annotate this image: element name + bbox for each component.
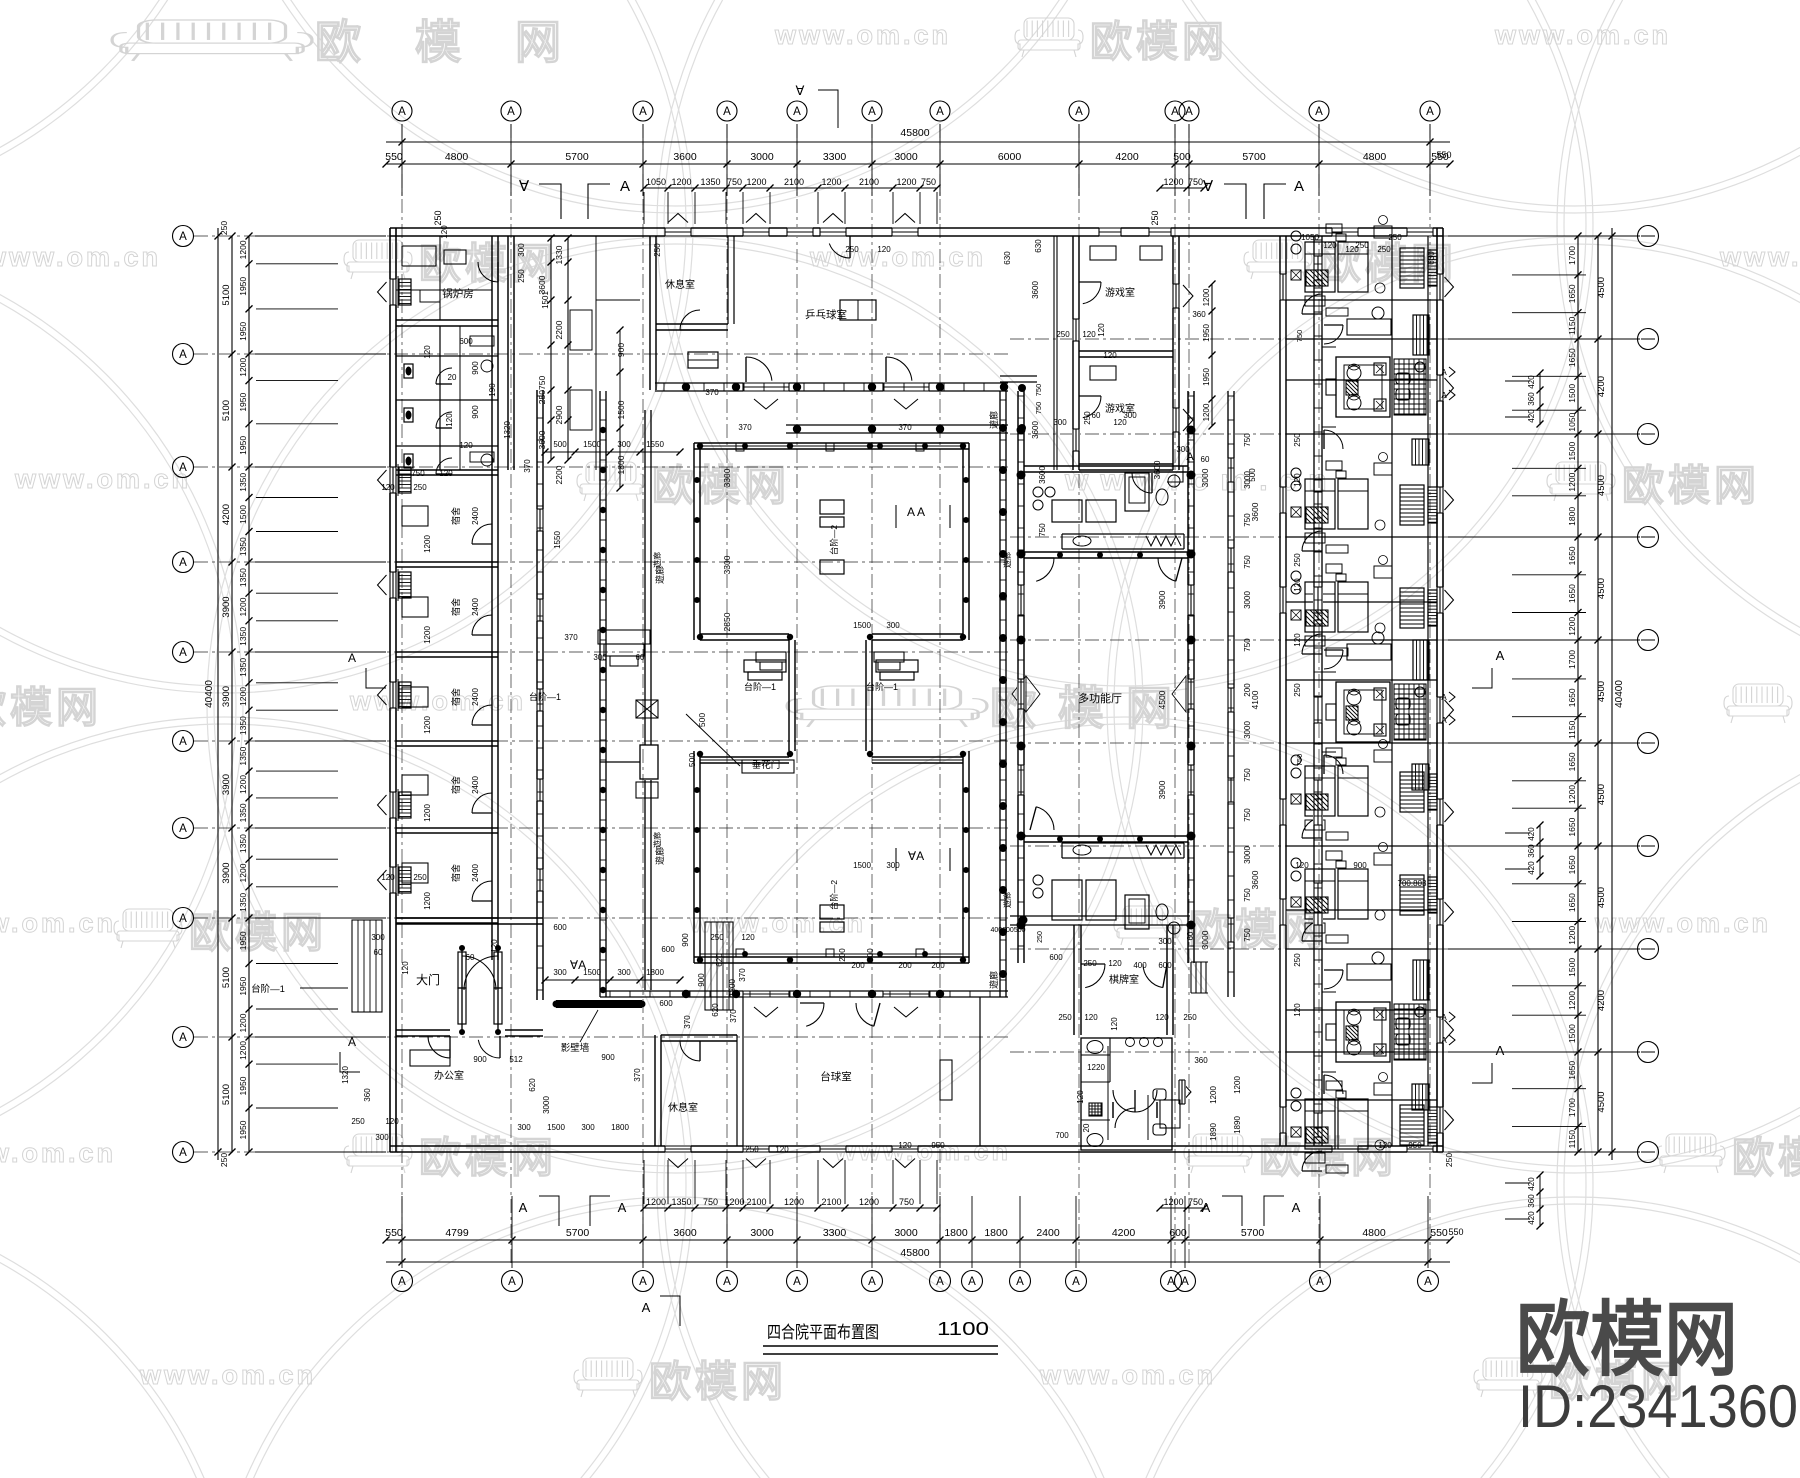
svg-text:4200: 4200	[1115, 151, 1139, 163]
svg-text:630: 630	[1003, 251, 1012, 265]
bath stall partitions left wing	[396, 355, 498, 357]
bath cluster extra lines	[459, 326, 461, 470]
svg-text:3300: 3300	[823, 1227, 847, 1239]
svg-text:4800: 4800	[1362, 1227, 1386, 1239]
suite doors	[1324, 650, 1343, 669]
bedroom corridor window	[1313, 493, 1323, 517]
svg-text:1200: 1200	[859, 1197, 879, 1207]
svg-text:300: 300	[517, 243, 526, 257]
svg-text:1200: 1200	[238, 1013, 248, 1032]
left extension lines	[255, 235, 386, 237]
svg-text:5700: 5700	[565, 151, 589, 163]
svg-text:1650: 1650	[1567, 688, 1577, 707]
multifunction hall wall dots	[1057, 552, 1063, 558]
svg-text:250: 250	[1377, 245, 1391, 254]
svg-text:1150: 1150	[1567, 316, 1577, 335]
svg-text:四合院平面布置图: 四合院平面布置图	[767, 1323, 879, 1342]
right overall dimension 40400	[1611, 228, 1613, 1160]
svg-text:200: 200	[838, 948, 847, 962]
svg-text:1650: 1650	[1567, 1061, 1577, 1080]
svg-text:1650: 1650	[1567, 546, 1577, 565]
top minor dims right side	[1160, 187, 1204, 189]
svg-text:500: 500	[553, 440, 567, 449]
right wing bedroom tv and extras	[1326, 308, 1348, 316]
svg-text:1200: 1200	[238, 863, 248, 882]
svg-text:2400: 2400	[471, 598, 480, 616]
bottom minor dims right side	[1160, 1207, 1204, 1209]
svg-text:900: 900	[473, 1055, 487, 1064]
svg-text:∀: ∀	[796, 83, 805, 98]
bath fixtures left wing	[404, 364, 413, 378]
svg-text:宿舍: 宿舍	[450, 776, 461, 794]
svg-text:300: 300	[617, 968, 631, 977]
svg-text:600: 600	[553, 923, 567, 932]
svg-text:200: 200	[898, 961, 912, 970]
svg-text:1350: 1350	[238, 834, 248, 853]
svg-text:300: 300	[517, 1123, 531, 1132]
svg-text:1200: 1200	[1567, 617, 1577, 636]
svg-text:1500: 1500	[616, 400, 626, 419]
svg-text:2100: 2100	[859, 177, 879, 187]
suite bathroom fixtures	[1396, 373, 1410, 384]
bedroom nightstand	[1336, 234, 1346, 241]
svg-text:1200: 1200	[1567, 785, 1577, 804]
svg-text:ID:2341360: ID:2341360	[1518, 1373, 1798, 1440]
svg-text:3900: 3900	[1157, 590, 1167, 609]
svg-text:1500: 1500	[1567, 1024, 1577, 1043]
svg-text:3600: 3600	[673, 1227, 697, 1239]
svg-text:900: 900	[1353, 861, 1367, 870]
svg-text:370: 370	[705, 388, 719, 397]
bottom major dimension chain	[386, 1239, 1450, 1241]
courtyard bottom beam mullions	[609, 991, 611, 997]
svg-text:1200: 1200	[784, 1197, 804, 1207]
right wing west wall	[1279, 236, 1281, 1146]
bottom minor dim extension lines	[643, 1160, 645, 1204]
svg-text:120: 120	[1323, 241, 1337, 250]
svg-text:60: 60	[466, 953, 475, 962]
svg-text:1350: 1350	[238, 803, 248, 822]
svg-text:900: 900	[471, 361, 480, 375]
svg-text:A: A	[639, 1276, 647, 1288]
svg-text:250: 250	[1183, 1013, 1197, 1022]
bedroom door	[1302, 634, 1322, 654]
svg-text:1200: 1200	[746, 177, 766, 187]
bedroom lamps	[1291, 755, 1301, 765]
svg-text:1050: 1050	[1301, 233, 1319, 242]
svg-text:250: 250	[413, 483, 427, 492]
bedroom lamps	[1291, 231, 1301, 241]
svg-text:2900: 2900	[554, 405, 564, 424]
svg-text:20: 20	[448, 373, 457, 382]
svg-text:3300: 3300	[722, 555, 732, 574]
right wing partitions	[1286, 299, 1437, 301]
left wing window sill lines	[397, 276, 399, 308]
svg-text:750: 750	[1243, 768, 1252, 782]
svg-text:锅炉房: 锅炉房	[442, 287, 474, 300]
svg-text:250: 250	[219, 1153, 229, 1167]
svg-text:A: A	[936, 1276, 944, 1288]
svg-text:120: 120	[1378, 1141, 1392, 1150]
svg-text:A: A	[1424, 1276, 1432, 1288]
svg-text:600: 600	[459, 337, 473, 346]
svg-text:300: 300	[1158, 937, 1172, 946]
svg-text:500: 500	[1173, 151, 1191, 163]
svg-text:垂花门: 垂花门	[752, 759, 781, 771]
svg-text:A: A	[348, 651, 356, 665]
chess block side stairs	[1190, 962, 1192, 993]
table tennis door pair	[829, 244, 850, 259]
svg-text:1050: 1050	[1567, 412, 1577, 431]
svg-text:4799: 4799	[445, 1227, 469, 1239]
bedroom wardrobe	[1400, 875, 1424, 915]
bedroom beds	[1305, 242, 1335, 292]
svg-text:250: 250	[1293, 553, 1302, 567]
suite radiator stacks	[1413, 315, 1429, 355]
svg-text:棋牌室: 棋牌室	[1109, 973, 1139, 986]
svg-text:370: 370	[683, 1015, 692, 1029]
svg-text:700: 700	[1055, 1131, 1069, 1140]
svg-text:750: 750	[1243, 638, 1252, 652]
bedroom beds	[1305, 1099, 1335, 1149]
left wing room tables	[402, 506, 428, 526]
svg-text:250750: 250750	[537, 376, 547, 405]
top minor dim extension lines	[643, 192, 645, 224]
svg-text:4500: 4500	[1596, 475, 1607, 496]
svg-text:欧模网: 欧模网	[419, 1134, 557, 1181]
svg-text:A: A	[793, 106, 801, 118]
bath basins row	[1126, 1038, 1135, 1047]
svg-text:250: 250	[517, 269, 526, 283]
multifunction hall top door arcs	[1036, 558, 1054, 581]
svg-text:420: 420	[1527, 827, 1536, 841]
svg-text:120: 120	[459, 441, 473, 450]
suite bathroom hatch floor	[1394, 1004, 1426, 1060]
svg-text:20: 20	[1082, 1123, 1091, 1132]
chuihua gate 垂花门	[640, 745, 658, 779]
svg-text:120: 120	[898, 1141, 912, 1150]
courtyard step stack left	[744, 660, 786, 672]
svg-text:A: A	[723, 106, 731, 118]
svg-text:370: 370	[738, 968, 747, 982]
svg-text:A: A	[1185, 106, 1193, 118]
svg-text:300: 300	[375, 1133, 389, 1142]
svg-text:宿舍: 宿舍	[450, 864, 461, 882]
svg-text:1200: 1200	[1209, 1086, 1218, 1104]
svg-text:A: A	[1016, 1276, 1024, 1288]
svg-text:950: 950	[1408, 1141, 1422, 1150]
svg-text:欧模网: 欧模网	[652, 462, 790, 509]
svg-text:1200: 1200	[1567, 472, 1577, 491]
svg-text:4800: 4800	[1363, 151, 1387, 163]
corridor chevron right of bath	[1181, 1081, 1191, 1103]
svg-text:190: 190	[488, 383, 497, 397]
svg-text:4500: 4500	[1596, 887, 1607, 908]
right major dimension chain	[1597, 236, 1599, 1152]
svg-text:1350: 1350	[238, 658, 248, 677]
svg-text:120: 120	[1103, 351, 1117, 360]
bedroom wardrobe	[1400, 588, 1424, 628]
svg-text:欧模网: 欧模网	[189, 909, 327, 956]
bedroom corridor window	[1313, 780, 1323, 804]
svg-text:750: 750	[1034, 402, 1043, 415]
svg-text:A: A	[1181, 1276, 1189, 1288]
svg-text:250: 250	[1355, 241, 1369, 250]
svg-text:A: A	[398, 1276, 406, 1288]
svg-text:250: 250	[219, 221, 229, 235]
svg-text:300: 300	[617, 440, 631, 449]
right corridor wall mullions	[1228, 395, 1234, 397]
bedroom door	[1302, 1151, 1322, 1171]
svg-text:1200: 1200	[646, 1197, 666, 1207]
svg-text:1350: 1350	[700, 177, 720, 187]
svg-text:4200: 4200	[1112, 1227, 1136, 1239]
inner hall mid neck	[788, 640, 790, 751]
game room inner fixtures	[1090, 246, 1116, 260]
svg-text:3000: 3000	[1243, 846, 1252, 864]
suite desk and chair	[1347, 964, 1391, 980]
svg-text:游戏室: 游戏室	[1105, 286, 1135, 299]
svg-text:1200: 1200	[238, 687, 248, 706]
svg-text:∀: ∀	[519, 178, 530, 195]
svg-text:休息室: 休息室	[668, 1101, 698, 1114]
svg-text:500: 500	[1248, 468, 1257, 482]
left minor dimension chain	[248, 236, 250, 1152]
svg-text:1800: 1800	[984, 1227, 1008, 1239]
svg-text:A: A	[179, 231, 187, 243]
small niche below rest room	[688, 352, 718, 368]
svg-text:A: A	[1292, 1200, 1301, 1215]
svg-text:A A: A A	[907, 505, 925, 519]
east colonnade	[999, 391, 1001, 997]
svg-text:1650: 1650	[1567, 348, 1577, 367]
svg-text:1200: 1200	[423, 716, 432, 734]
svg-text:3900: 3900	[221, 774, 232, 795]
svg-text:1350: 1350	[238, 627, 248, 646]
hall bottom block steps	[820, 905, 844, 919]
bedroom lamps	[1291, 468, 1301, 478]
svg-text:1200: 1200	[1163, 177, 1183, 187]
svg-text:120: 120	[1293, 1003, 1302, 1017]
svg-text:1320: 1320	[503, 421, 512, 439]
svg-text:950: 950	[931, 1141, 945, 1150]
svg-text:600: 600	[1049, 953, 1063, 962]
title underline	[763, 1345, 998, 1347]
bedroom door	[1302, 818, 1322, 838]
svg-text:1950: 1950	[238, 322, 248, 341]
svg-text:120: 120	[440, 225, 449, 239]
svg-text:1500: 1500	[583, 440, 601, 449]
boiler block right wall	[507, 236, 509, 470]
left wing WC circle symbols	[481, 360, 493, 372]
svg-text:A: A	[1202, 1200, 1211, 1215]
svg-text:1350: 1350	[238, 746, 248, 765]
svg-text:欧模网: 欧模网	[649, 1358, 787, 1405]
svg-text:1700: 1700	[1567, 650, 1577, 669]
svg-text:A: A	[398, 106, 406, 118]
svg-text:3000: 3000	[1200, 930, 1210, 949]
bath wc fixtures right	[1153, 1089, 1166, 1100]
svg-text:4200: 4200	[1596, 376, 1607, 397]
svg-text:400600500: 400600500	[990, 927, 1025, 934]
svg-text:A: A	[179, 647, 187, 659]
vertical axis grid lines	[402, 124, 1430, 1266]
svg-text:A: A	[968, 1276, 976, 1288]
svg-text:多功能厅: 多功能厅	[1078, 691, 1122, 705]
svg-text:台阶—1: 台阶—1	[744, 681, 776, 692]
svg-text:250: 250	[351, 1117, 365, 1126]
svg-text:1200: 1200	[1567, 991, 1577, 1010]
svg-text:A: A	[642, 1300, 651, 1315]
svg-text:1200: 1200	[238, 240, 248, 259]
right wing corridor wall mullions	[1314, 239, 1322, 241]
svg-text:1500: 1500	[853, 861, 871, 870]
boiler room fixtures	[402, 246, 436, 266]
svg-text:120: 120	[877, 245, 891, 254]
bottom wall windows	[665, 1145, 691, 1153]
bedroom door	[1302, 531, 1322, 551]
billiard room door arcs	[806, 1003, 824, 1026]
gate room 大门 walls	[396, 917, 543, 919]
svg-text:500: 500	[697, 713, 707, 727]
svg-text:60: 60	[1201, 455, 1210, 464]
courtyard hall window lines top block	[700, 445, 963, 447]
svg-text:∀: ∀	[1203, 178, 1214, 195]
svg-text:370: 370	[523, 459, 532, 473]
svg-text:A: A	[1441, 1013, 1447, 1022]
svg-text:欧模网: 欧模网	[315, 16, 615, 68]
svg-text:1200: 1200	[423, 626, 432, 644]
svg-text:欧模网: 欧模网	[1732, 1134, 1800, 1181]
right minor dimension chain	[1577, 236, 1579, 1152]
top colonnade windows and chevrons	[743, 382, 789, 392]
svg-text:www.om.cn: www.om.cn	[14, 464, 191, 494]
top strip dim chain lines	[550, 238, 552, 460]
svg-text:A: A	[179, 736, 187, 748]
svg-text:600: 600	[661, 945, 675, 954]
svg-text:2400: 2400	[471, 776, 480, 794]
svg-text:1800: 1800	[646, 968, 664, 977]
svg-text:A: A	[179, 557, 187, 569]
inner porch beam top	[786, 424, 1008, 426]
svg-text:A: A	[179, 462, 187, 474]
left wall windows	[389, 279, 397, 305]
svg-text:750: 750	[1243, 808, 1252, 822]
svg-text:5100: 5100	[221, 400, 232, 421]
entrance steps hatch	[352, 920, 382, 1012]
svg-text:1350: 1350	[238, 537, 248, 556]
bedroom desk right	[1374, 853, 1392, 865]
svg-text:5100: 5100	[221, 284, 232, 305]
svg-text:3900: 3900	[1157, 780, 1167, 799]
svg-text:A: A	[1496, 1043, 1505, 1058]
svg-text:300: 300	[581, 1123, 595, 1132]
svg-text:250: 250	[1293, 433, 1302, 447]
svg-text:A: A	[179, 913, 187, 925]
svg-text:A: A	[1426, 106, 1434, 118]
suite radiator stacks	[1413, 960, 1429, 1000]
svg-text:A: A	[868, 1276, 876, 1288]
right wing bedroom rugs	[1306, 270, 1328, 286]
svg-text:750: 750	[1243, 928, 1252, 942]
svg-text:台阶—2: 台阶—2	[829, 525, 839, 556]
svg-text:750: 750	[1034, 384, 1043, 397]
svg-text:40400: 40400	[1614, 680, 1625, 708]
svg-text:1200: 1200	[1233, 1076, 1242, 1094]
svg-text:1800: 1800	[1567, 507, 1577, 526]
boiler room 锅炉房	[396, 319, 498, 321]
svg-text:60: 60	[1092, 411, 1101, 420]
svg-text:120: 120	[1108, 959, 1122, 968]
svg-text:120: 120	[445, 413, 454, 427]
billiard room side walls	[979, 997, 981, 1146]
svg-text:1200: 1200	[1163, 1197, 1183, 1207]
svg-text:420: 420	[1527, 1177, 1536, 1191]
svg-text:3000: 3000	[894, 151, 918, 163]
svg-text:1890: 1890	[1209, 1123, 1218, 1141]
suite ornate bed	[1336, 357, 1390, 417]
bedroom desk right	[1374, 1083, 1392, 1095]
svg-text:A: A	[1315, 106, 1323, 118]
suite bathroom hatch floor	[1394, 684, 1426, 740]
svg-text:遊廊: 遊廊	[988, 411, 999, 429]
svg-text:5100: 5100	[221, 967, 232, 988]
svg-text:200: 200	[1243, 683, 1252, 697]
svg-text:www.om.cn: www.om.cn	[774, 20, 951, 50]
svg-text:www.om.cn: www.om.cn	[1039, 1360, 1216, 1390]
svg-text:120: 120	[490, 939, 499, 953]
svg-text:750: 750	[1188, 177, 1203, 187]
game block fine dim chain	[1211, 284, 1213, 426]
svg-text:A: A	[1171, 106, 1179, 118]
bottom overall dimension 45800	[386, 1261, 1450, 1263]
svg-text:1550: 1550	[553, 531, 562, 549]
svg-text:600: 600	[1158, 961, 1172, 970]
suite desk and chair	[1347, 644, 1391, 660]
svg-text:370: 370	[729, 1009, 738, 1023]
svg-text:550: 550	[1430, 1227, 1448, 1239]
svg-text:630: 630	[1034, 239, 1043, 253]
svg-text:www.om.cn: www.om.cn	[1719, 242, 1800, 272]
svg-text:1150: 1150	[1567, 1130, 1577, 1149]
svg-text:1200: 1200	[1202, 403, 1211, 421]
svg-text:www.om.cn: www.om.cn	[1594, 908, 1771, 938]
svg-text:2100: 2100	[784, 177, 804, 187]
svg-text:1700: 1700	[1567, 1098, 1577, 1117]
svg-text:1200: 1200	[238, 358, 248, 377]
left wing partition walls and dorm rooms	[396, 469, 498, 471]
svg-text:遊廊: 遊廊	[1002, 552, 1012, 568]
bedroom lamps	[1291, 858, 1301, 868]
gate room side posts	[459, 945, 465, 951]
outer wall bottom	[390, 1145, 1443, 1147]
svg-text:400: 400	[866, 948, 875, 962]
svg-text:台阶—1: 台阶—1	[529, 691, 561, 702]
west gate step ladder	[598, 630, 650, 644]
svg-text:120: 120	[1076, 1090, 1085, 1104]
svg-text:A: A	[868, 106, 876, 118]
svg-text:1200: 1200	[821, 177, 841, 187]
svg-text:1650: 1650	[1567, 584, 1577, 603]
svg-text:4500: 4500	[1157, 690, 1167, 709]
svg-text:A: A	[179, 823, 187, 835]
suite above hall - fixtures	[1052, 500, 1082, 522]
suite desk and chair	[1347, 319, 1391, 335]
multifunction hall side window bands	[1017, 585, 1025, 615]
svg-text:1200: 1200	[423, 804, 432, 822]
svg-text:www.om.cn: www.om.cn	[834, 1136, 1011, 1166]
bedroom nightstand	[1336, 1091, 1346, 1098]
